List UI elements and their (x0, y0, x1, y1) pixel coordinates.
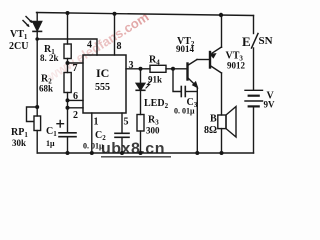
svg-text:7: 7 (73, 63, 78, 74)
wire VT1 top drop (36, 13, 38, 22)
light arrow 2 (23, 21, 30, 28)
switch SN lever (252, 34, 259, 49)
watermark ubx8.cn (101, 141, 171, 158)
op-amp U1 IC 555 box (83, 55, 126, 113)
wire pin4 horizontal (37, 39, 97, 55)
resistor R1 (64, 44, 71, 59)
wire pin1 down (91, 113, 93, 153)
node VT3 emitter top (219, 13, 223, 17)
svg-text:9014: 9014 (176, 44, 195, 54)
wire pin3 (126, 68, 150, 70)
wire pin6 (68, 99, 84, 101)
wire bottom rail (37, 152, 253, 154)
svg-text:9V: 9V (264, 100, 276, 110)
wire R1-R2 (67, 59, 69, 73)
node pin4 tap (35, 37, 39, 41)
svg-text:2: 2 (73, 110, 78, 121)
svg-text:ubx8.cn: ubx8.cn (101, 141, 165, 158)
wire LED2 to R3 (140, 90, 142, 114)
wire pin2 (68, 107, 84, 109)
wire R2 to C1 (67, 93, 69, 133)
svg-text:30k: 30k (12, 138, 26, 148)
capacitor C1 (57, 121, 76, 137)
wire VT3 emitter to top rail (221, 15, 223, 47)
node RP1 wiper (35, 105, 39, 109)
wire LED2 drop (140, 69, 142, 84)
wire pin8 drop (114, 14, 116, 55)
wire VT3 collector to speaker (221, 73, 223, 115)
wire R3 to bottom rail (140, 131, 142, 153)
svg-text:91k: 91k (148, 75, 162, 85)
LED LED2 (136, 81, 151, 90)
node LED branch (139, 67, 143, 71)
wire switch to battery (253, 48, 255, 90)
light arrow 1 (26, 17, 33, 24)
svg-text:E: E (242, 34, 251, 49)
wire VT1 cathode to node (36, 31, 38, 116)
wire speaker to bottom rail (221, 129, 223, 153)
svg-text:68k: 68k (39, 84, 53, 94)
svg-text:6: 6 (73, 91, 78, 102)
svg-text:8. 2k: 8. 2k (40, 53, 59, 63)
photodiode VT1 (33, 22, 42, 32)
node pin8 top (113, 12, 117, 16)
svg-text:5: 5 (124, 117, 129, 128)
wire VT2 emitter to bottom rail (196, 87, 198, 153)
node R1 top (66, 11, 70, 15)
node pin6 (66, 98, 70, 102)
wire C3 branch (173, 69, 181, 92)
capacitor C2 (115, 133, 129, 137)
svg-text:555: 555 (95, 82, 110, 93)
node speaker ground (220, 151, 224, 155)
wire pin7 (68, 62, 84, 64)
wire VT2 collector to VT3 base (197, 59, 210, 61)
svg-text:2CU: 2CU (9, 41, 28, 52)
transistor Q1 VT2 (188, 60, 198, 88)
resistor R2 (64, 73, 71, 93)
wire C2 to bottom rail (121, 137, 123, 153)
node VT2 emitter ground (195, 151, 199, 155)
svg-text:1μ: 1μ (46, 139, 55, 148)
node R3 ground (139, 151, 143, 155)
node C2 ground (120, 151, 124, 155)
svg-text:0. 01μ: 0. 01μ (174, 107, 195, 116)
svg-text:SN: SN (259, 35, 273, 47)
transistor Q2 VT3 (210, 47, 222, 73)
svg-text:IC: IC (96, 66, 109, 80)
svg-text:4: 4 (87, 40, 92, 51)
resistor R4 (150, 65, 166, 72)
wire R4 to VT2 base (166, 68, 188, 70)
node C1 ground (66, 151, 70, 155)
wire switch drop (253, 16, 255, 34)
potentiometer RP1 (34, 116, 41, 131)
node C3 branch (171, 67, 175, 71)
wire RP1 wiper bracket (27, 107, 38, 122)
wire top rail (37, 13, 254, 16)
svg-text:8Ω: 8Ω (204, 125, 217, 136)
battery V (245, 90, 263, 106)
svg-text:1: 1 (94, 117, 99, 128)
svg-text:9012: 9012 (227, 61, 246, 71)
wire R1 top drop (67, 13, 69, 44)
node R1 R2 pin7 (66, 61, 70, 65)
node pin1 ground (90, 151, 94, 155)
svg-text:8: 8 (117, 41, 122, 52)
wire C1 to bottom rail (67, 137, 69, 153)
capacitor C3 (181, 87, 185, 97)
svg-text:B: B (210, 114, 217, 125)
wire RP1 to bottom rail (36, 131, 38, 154)
resistor R3 (137, 115, 144, 132)
svg-text:3: 3 (129, 60, 134, 71)
svg-text:300: 300 (146, 126, 160, 136)
wire C3 to emitter (185, 91, 197, 93)
speaker B (218, 107, 236, 138)
node pin2 (66, 106, 70, 110)
wire battery to bottom rail (253, 106, 255, 153)
wire pin5 down (121, 113, 123, 133)
